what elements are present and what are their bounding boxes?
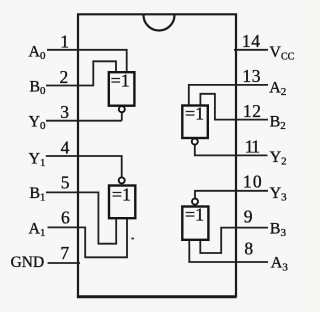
wire pin9 B3 into gate 4 bottom input — [200, 228, 268, 253]
wire pin6 A1 into gate 3 bottom input — [48, 218, 128, 257]
wire pin5 B1 into gate 3 bottom input — [46, 192, 116, 243]
gate G3 inversion bubble — [119, 177, 125, 183]
svg-text:1: 1 — [60, 31, 69, 51]
IC package outline U1 — [78, 14, 236, 297]
pin-1 index notch — [144, 15, 175, 31]
xnor gate body G1 — [109, 72, 135, 106]
svg-text:12: 12 — [243, 101, 262, 121]
wire pin12 B2 into gate 2 top input — [200, 94, 268, 120]
xnor gate body G2 — [182, 106, 208, 139]
wire pin7 GND stub — [48, 262, 80, 264]
wire pin3 Y0 from gate 1 output — [46, 120, 122, 122]
svg-text:8: 8 — [244, 239, 253, 259]
wire pin13 A2 into gate 2 top input — [189, 85, 268, 106]
gate G1 inversion bubble — [119, 106, 125, 112]
svg-text:14: 14 — [242, 31, 261, 51]
svg-text:=1: =1 — [112, 185, 131, 205]
gate G4 inversion bubble — [192, 199, 198, 205]
svg-text:13: 13 — [242, 66, 261, 86]
svg-text:10: 10 — [243, 172, 263, 192]
wire pin11 Y2 from gate 2 output — [195, 145, 268, 156]
svg-text:=1: =1 — [185, 104, 204, 124]
svg-text:3: 3 — [60, 102, 69, 122]
scan speck — [131, 238, 134, 240]
wire pin2 B0 into gate 1 top input — [46, 61, 116, 85]
svg-text:=1: =1 — [111, 70, 130, 90]
svg-text:7: 7 — [60, 243, 69, 263]
wire pin1 A0 into gate 1 top input — [47, 50, 127, 72]
wire pin8 A3 into gate 4 bottom input — [189, 240, 268, 262]
svg-text:=1: =1 — [185, 205, 204, 225]
svg-text:2: 2 — [60, 67, 69, 87]
svg-text:4: 4 — [61, 138, 70, 158]
IC package bottom edge — [77, 295, 237, 298]
wire pin4 Y1 from gate 3 output — [46, 156, 122, 177]
gate G2 inversion bubble — [192, 139, 198, 145]
wire pin14 VCC stub — [234, 49, 268, 51]
svg-text:6: 6 — [61, 207, 70, 227]
wire pin10 Y3 from gate 4 output — [195, 191, 268, 199]
xnor gate body G3 — [109, 186, 135, 219]
xnor gate body G4 — [182, 207, 208, 240]
svg-text:9: 9 — [244, 207, 253, 227]
svg-text:5: 5 — [61, 173, 70, 193]
gate G1 output stem — [121, 112, 123, 121]
svg-text:11: 11 — [245, 136, 260, 156]
svg-text:GND: GND — [11, 254, 45, 271]
